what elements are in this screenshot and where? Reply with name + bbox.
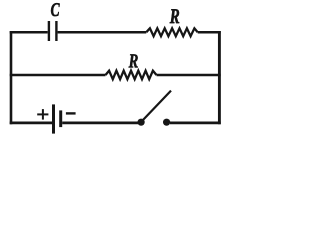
- label R (top resistor): [170, 9, 179, 23]
- wire: bottom rail, middle segment (battery to switch): [62, 121, 138, 124]
- label C (capacitor value): [51, 3, 60, 16]
- wire: top rail, left segment (corner to capacitor): [10, 31, 48, 34]
- battery B1 negative plate (short): [59, 110, 62, 127]
- resistor R (middle) zigzag: [106, 71, 157, 80]
- wire: middle rail, right segment (resistor to right rail): [157, 74, 221, 76]
- resistor R (top) zigzag: [146, 28, 197, 36]
- wire: bottom rail, right segment (switch to corner): [170, 121, 221, 124]
- battery B1 positive plate (long): [52, 104, 55, 133]
- label R (middle resistor): [129, 54, 138, 67]
- label + (battery positive): [37, 109, 48, 120]
- capacitor C1: [49, 21, 57, 41]
- switch S1 left contact (dot): [138, 119, 145, 126]
- wire: bottom rail, left segment (corner to battery): [10, 121, 52, 124]
- wire: top rail, right segment (resistor to corner): [198, 31, 221, 34]
- wire: right vertical rail: [218, 31, 221, 124]
- switch S1 lever (open): [142, 91, 171, 121]
- switch S1 right contact (dot): [163, 119, 170, 126]
- label - (battery negative): [66, 112, 76, 114]
- wire: top rail, middle segment (capacitor to resistor): [58, 31, 147, 34]
- wire: left vertical rail: [10, 31, 13, 124]
- wire: middle rail, left segment (left rail to resistor): [10, 74, 106, 76]
